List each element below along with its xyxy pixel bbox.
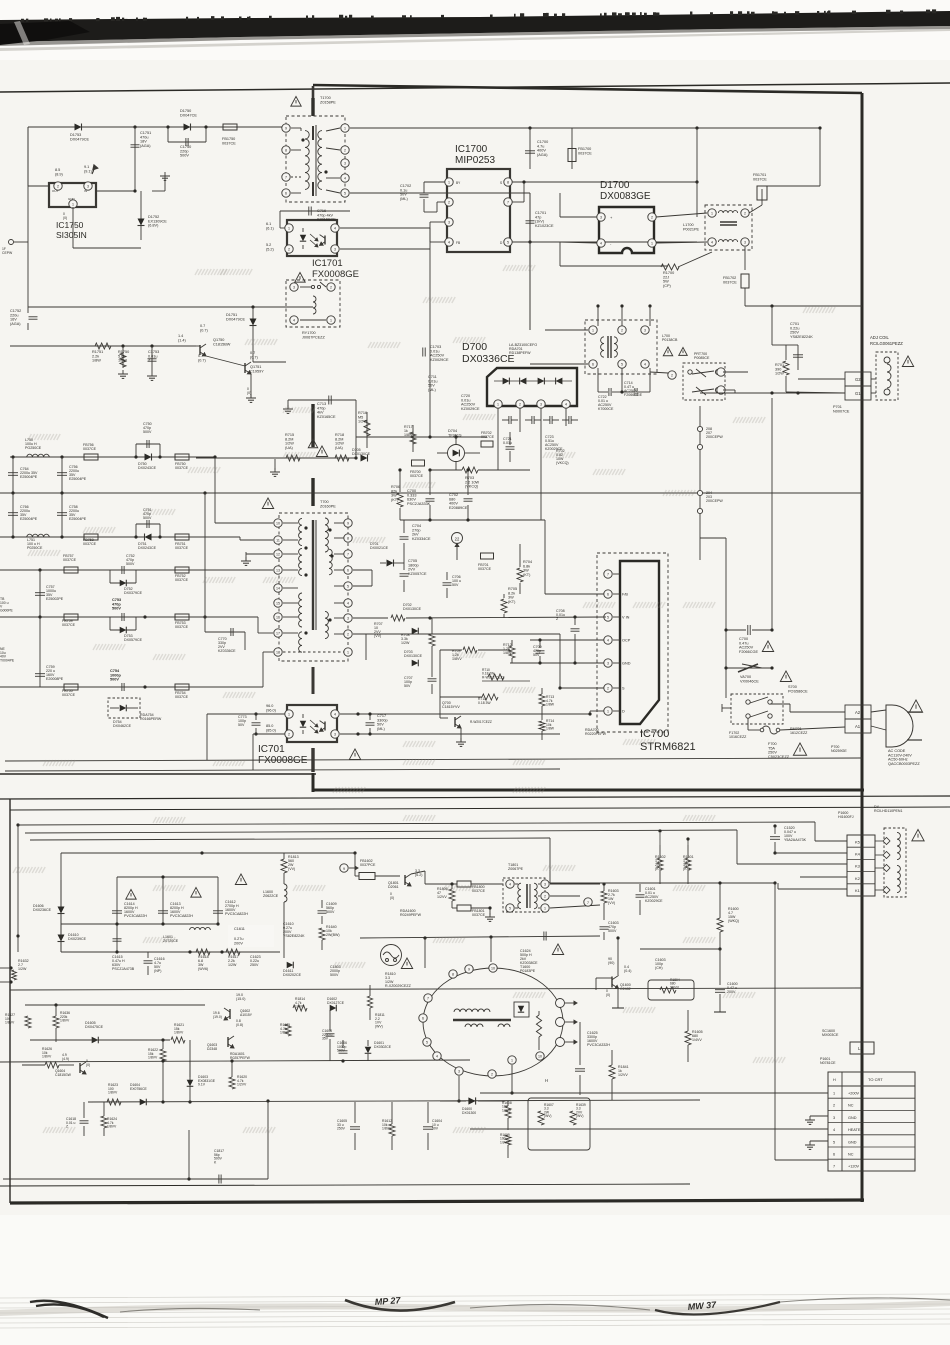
svg-text:6: 6 [833, 1153, 835, 1157]
wire y1062 long [0, 1060, 470, 1062]
R1810 and spark gap [381, 945, 402, 966]
wire AC input row y127 [28, 126, 286, 128]
svg-text:13: 13 [276, 568, 280, 572]
wire pin2 left [28, 185, 49, 187]
diode block D700 [487, 368, 577, 406]
C1605 R1612 C1604 [350, 1126, 360, 1128]
svg-text:7: 7 [607, 572, 609, 576]
Q1751 emitter ground [250, 374, 252, 398]
L750 coil [27, 454, 49, 457]
caps under D700 [508, 416, 510, 424]
FB756 [84, 454, 98, 460]
svg-text:12: 12 [276, 552, 280, 556]
capacitor C1750 [167, 127, 169, 142]
R709 [463, 647, 477, 653]
cap C1616b [113, 938, 122, 940]
svg-text:9: 9 [468, 967, 470, 971]
svg-text:1: 1 [448, 180, 450, 184]
wire y877 cap bank top [117, 876, 218, 878]
K3 feed wire [25, 830, 737, 833]
RY1700 relay [286, 280, 340, 327]
K5 feed wire [18, 822, 815, 825]
wire from pin3 to C1751 [96, 190, 135, 192]
PRT700 posistor [683, 363, 725, 400]
svg-text:3: 3 [540, 402, 542, 406]
C1618 R1624 [80, 1120, 89, 1122]
svg-text:C1611: C1611 [234, 927, 245, 931]
V IN rail [604, 616, 606, 618]
svg-text:D: D [622, 710, 625, 714]
svg-text:V IN: V IN [622, 616, 630, 620]
wire top border to T1700 [312, 86, 315, 98]
svg-text:NC: NC [848, 1153, 854, 1157]
svg-text:17: 17 [276, 631, 280, 635]
svg-text:10: 10 [491, 966, 495, 970]
capacitor C1701 [529, 202, 531, 242]
FB1800 [457, 881, 471, 887]
svg-text:2: 2 [347, 632, 349, 636]
svg-text:3: 3 [334, 732, 336, 736]
GND wire [510, 662, 604, 664]
C1606 D1601 [339, 1050, 348, 1052]
wire T1700 pin5 to right rail [350, 192, 530, 194]
svg-text:2: 2 [288, 732, 290, 736]
R1636 [53, 1016, 59, 1028]
svg-text:4: 4 [347, 601, 349, 605]
svg-text:6: 6 [422, 1016, 424, 1020]
vertical rails x726 x772 [725, 538, 727, 698]
R1608 R1607 R1639 cluster [505, 1106, 511, 1118]
svg-text:5: 5 [509, 906, 511, 910]
svg-text:3: 3 [458, 1069, 460, 1073]
flyback pin drops [458, 1076, 460, 1101]
R707 and net to IC700 [353, 617, 388, 619]
svg-text:K2: K2 [855, 876, 861, 881]
bead FB702 [481, 441, 493, 447]
R1609 [505, 1135, 511, 1145]
R1640 [319, 928, 325, 940]
R1602 R1601 tops to rails [659, 833, 661, 845]
svg-text:H: H [545, 1078, 548, 1083]
svg-text:8: 8 [452, 972, 454, 976]
svg-text:OUT: OUT [52, 189, 59, 193]
wire y520 [400, 519, 545, 521]
nodes 208 207 [699, 406, 701, 560]
svg-text:3: 3 [87, 184, 89, 188]
FB1602 [359, 873, 375, 880]
svg-text:C753470p500V: C753470p500V [112, 598, 121, 611]
K1 feed wire [30, 838, 550, 840]
svg-text:4: 4 [607, 638, 609, 642]
row y570 [0, 569, 193, 571]
R1605 [685, 1031, 691, 1045]
svg-text:IC1701: IC1701 [312, 258, 343, 269]
svg-text:3: 3 [334, 247, 336, 251]
svg-text:2: 2 [519, 402, 521, 406]
R1604 box [648, 980, 694, 1000]
svg-text:2: 2 [621, 328, 623, 332]
svg-text:IC700: IC700 [640, 728, 669, 740]
wire IC1750 gnd down [72, 207, 74, 248]
C709 [536, 650, 545, 652]
wires into connector [480, 1092, 828, 1094]
svg-text:2: 2 [448, 200, 450, 204]
ferrite bead FB1702 [744, 247, 746, 270]
diode D701 [387, 560, 394, 567]
svg-text:H: H [833, 1078, 836, 1082]
bottom thin rule [0, 1184, 690, 1186]
wire y1040 [30, 1039, 170, 1041]
node 7 circle [584, 898, 592, 906]
D1605 [92, 1037, 99, 1044]
R1623 D1604 [107, 1099, 121, 1105]
OCP wire [530, 639, 604, 641]
R1806 [449, 889, 455, 901]
svg-text:C7210.01u: C7210.01u [503, 437, 512, 445]
svg-text:GND: GND [848, 1140, 857, 1144]
svg-text:FB17010037CE: FB17010037CE [753, 173, 767, 181]
svg-text:4: 4 [600, 241, 602, 245]
svg-text:3: 3 [644, 328, 646, 332]
R1614 D1602 R1615 C1608 R1811 [293, 1005, 307, 1011]
diode D703 [412, 660, 419, 667]
top page rule [0, 83, 950, 92]
svg-text:6: 6 [592, 362, 594, 366]
long vertical wire x430 [429, 228, 431, 437]
svg-text:7: 7 [285, 175, 287, 179]
svg-text:2: 2 [671, 373, 673, 377]
capacitor C1703 [422, 348, 424, 357]
wire pin4 FB left [430, 241, 445, 243]
svg-text:FB18010037CE: FB18010037CE [472, 909, 486, 917]
svg-text:6: 6 [285, 191, 287, 195]
wires L700 [560, 329, 588, 331]
svg-text:3: 3 [744, 240, 746, 244]
optocoupler IC701 [287, 705, 337, 742]
rail links to IC701 wires [206, 714, 208, 760]
svg-text:7: 7 [347, 552, 349, 556]
feed wires from FB1702 rail into L700 [597, 306, 599, 326]
svg-text:+120V: +120V [848, 1165, 860, 1169]
wires from IC701 [207, 713, 285, 715]
flyback T1600 ring [423, 968, 563, 1076]
HV out circles [556, 999, 565, 1008]
wire x355 junction [310, 852, 355, 854]
svg-text:ADJ COIL: ADJ COIL [870, 335, 890, 340]
T700 core [312, 520, 314, 630]
svg-text:Q1603D2348: Q1603D2348 [207, 1043, 217, 1051]
IC1700 main box [447, 169, 510, 252]
svg-text:8: 8 [347, 536, 349, 540]
D1611 [287, 962, 294, 969]
svg-text:10: 10 [538, 1054, 542, 1058]
svg-text:C752470p500V: C752470p500V [126, 554, 135, 566]
R708 [429, 634, 435, 646]
capacitor C721 [506, 446, 515, 448]
svg-text:FB17500037CE: FB17500037CE [222, 137, 236, 145]
bottom rails [5, 758, 862, 761]
svg-text:1: 1 [511, 1058, 513, 1062]
svg-text:G2: G2 [855, 377, 861, 382]
IC700 dashed outline [597, 553, 668, 732]
R1841 [609, 1065, 615, 1079]
capacitor C1751 [133, 125, 136, 128]
wire y1102 [88, 1100, 700, 1102]
hatch lower [153, 817, 185, 823]
varistor VA700 [726, 667, 772, 669]
line filter L1700 [705, 205, 752, 250]
upper schematic box bottom border [313, 789, 864, 792]
wire S700 to fuse [747, 718, 749, 730]
svg-text:1: 1 [711, 211, 713, 215]
svg-text:7: 7 [587, 901, 589, 905]
wire y437 [356, 436, 487, 438]
L700 filter [585, 320, 657, 374]
svg-text:3: 3 [347, 616, 349, 620]
scan scribble right with writing [655, 1302, 780, 1315]
svg-text:MP 27: MP 27 [374, 1295, 401, 1307]
C1603 470p [600, 926, 609, 928]
Q1600 [611, 977, 613, 988]
svg-text:3: 3 [293, 285, 295, 289]
diode D705 [361, 455, 368, 462]
svg-text:2: 2 [744, 211, 746, 215]
lower rails entering left [16, 823, 19, 826]
svg-text:2: 2 [651, 215, 653, 219]
D1600 diode [468, 1097, 475, 1104]
svg-text:4: 4 [334, 712, 336, 716]
ground left of R715 [274, 459, 276, 470]
svg-text:1: 1 [347, 650, 349, 654]
svg-text:STRM6821: STRM6821 [640, 741, 696, 753]
svg-text:3: 3 [600, 215, 602, 219]
R714 [539, 721, 545, 731]
Q1603 [227, 1037, 229, 1047]
C1601 [636, 894, 645, 896]
thyristor D704 [448, 445, 465, 462]
wire y1005 [25, 1004, 205, 1006]
upper box top edge [313, 85, 862, 93]
C764 C756 electrolytics [12, 457, 14, 493]
R1627 [25, 1016, 31, 1028]
R1620 [229, 1077, 235, 1089]
capacitor C706 [443, 582, 452, 584]
R1617 [226, 949, 240, 955]
links to T700 left pins [193, 456, 215, 458]
fuse F700 [762, 726, 778, 734]
svg-text:2: 2 [57, 184, 59, 188]
svg-text:4: 4 [344, 176, 346, 180]
svg-text:4: 4 [509, 882, 511, 886]
svg-text:R-W2017CEZZ: R-W2017CEZZ [470, 720, 492, 724]
svg-text:18: 18 [276, 650, 280, 654]
capacitor C716 [280, 210, 350, 212]
svg-text:2: 2 [833, 1104, 835, 1108]
node 22 [452, 533, 463, 544]
svg-text:FX0008GE: FX0008GE [312, 269, 359, 280]
svg-text:D1700: D1700 [600, 180, 630, 191]
svg-text:FB17000037CE: FB17000037CE [578, 147, 592, 155]
svg-text:9: 9 [343, 867, 345, 871]
cap C1614 [116, 877, 118, 952]
Q1801 [404, 875, 406, 885]
wire to D1700 [696, 182, 698, 217]
svg-text:HEATER: HEATER [848, 1128, 863, 1132]
wire y952 [61, 951, 280, 953]
svg-text:SI305IN: SI305IN [56, 230, 87, 240]
svg-text:5: 5 [507, 240, 509, 244]
R1600 [717, 918, 723, 932]
ground near C1751 [152, 190, 165, 192]
wire D1700 to L1700 [656, 213, 707, 217]
wire y924 [61, 923, 218, 925]
wire L700 top to rail [621, 306, 623, 316]
row y617 [0, 616, 193, 618]
wire D700 pin outputs down [497, 432, 499, 470]
svg-text:1: 1 [344, 126, 346, 130]
upper schematic box right border [861, 93, 864, 1202]
R711 [482, 694, 498, 700]
C770 branch [204, 617, 206, 632]
C757 electrolytic [39, 570, 41, 617]
T700 windings [299, 518, 302, 545]
flyback resistor [536, 1015, 541, 1037]
svg-text:2: 2 [344, 148, 346, 152]
core crease below T700 [312, 667, 315, 694]
svg-text:22: 22 [455, 537, 460, 542]
svg-text:1: 1 [497, 402, 499, 406]
ferrite bead FB1701 [749, 205, 762, 213]
bead FB701 lower [481, 553, 494, 559]
svg-text:2: 2 [491, 1072, 493, 1076]
svg-text:1: 1 [544, 906, 546, 910]
resistor R1750 [121, 344, 124, 347]
diode D1606 [60, 880, 62, 924]
left sub-section bottom rule [0, 773, 316, 775]
transistor Q1750 [199, 345, 201, 355]
svg-text:IC701: IC701 [258, 744, 285, 755]
svg-text:1: 1 [607, 709, 609, 713]
R1626 Q1604 [45, 1062, 59, 1068]
svg-text:16: 16 [276, 615, 280, 619]
svg-text:6: 6 [347, 568, 349, 572]
svg-text:4: 4 [293, 318, 295, 322]
svg-text:15: 15 [276, 601, 280, 605]
node 9 arrow [340, 864, 348, 872]
svg-text:L3: L3 [858, 1046, 863, 1051]
R1603 [601, 891, 607, 903]
resistor R701 [785, 345, 787, 360]
pin18 dashes [283, 651, 344, 653]
rail y493 [0, 492, 862, 494]
wire from G1 row down [771, 398, 773, 630]
diode D1610 [58, 935, 65, 942]
flyback diode box [514, 1002, 529, 1017]
wire pin2 down [353, 633, 560, 635]
D750 [145, 454, 152, 461]
svg-text:FB17020037CE: FB17020037CE [723, 276, 737, 284]
R717 resistor [412, 425, 414, 452]
svg-text:C750470p500V: C750470p500V [143, 422, 152, 434]
svg-text:MIP0253: MIP0253 [455, 155, 495, 166]
wire upper AC to connector [770, 703, 790, 705]
svg-text:5: 5 [607, 615, 609, 619]
diode D1753 [75, 124, 82, 131]
lower box top rules [0, 796, 950, 799]
capacitor C1600b right [718, 947, 721, 950]
grounds at connector [810, 1115, 828, 1117]
svg-text:F/B: F/B [622, 593, 628, 597]
svg-text:3: 3 [607, 661, 609, 665]
pins 6-5 link [353, 569, 372, 571]
svg-text:1: 1 [651, 241, 653, 245]
verticals for cap bank [60, 900, 62, 952]
wire y560 to IC700 area [668, 559, 700, 561]
ferrite bead FB1750 [223, 124, 237, 130]
ferrite bead FB1700 [571, 128, 573, 169]
svg-text:5: 5 [426, 1040, 428, 1044]
R1621 [171, 1037, 185, 1043]
svg-text:2: 2 [288, 247, 290, 251]
svg-text:G1: G1 [855, 391, 861, 396]
capacitor C1700 [529, 128, 531, 169]
svg-text:GND: GND [848, 1116, 857, 1120]
svg-text:1: 1 [288, 712, 290, 716]
svg-text:2: 2 [607, 686, 609, 690]
wire y949 to R1600 [640, 948, 720, 950]
C722 C714 caps [597, 368, 599, 392]
Q1602 [229, 1009, 231, 1019]
svg-text:1: 1 [72, 202, 74, 206]
capacitor C700b [726, 629, 772, 631]
svg-text:1: 1 [833, 1092, 835, 1096]
svg-text:OCP: OCP [622, 639, 631, 643]
C1611 white box [228, 925, 274, 947]
svg-text:TO CRT: TO CRT [868, 1077, 883, 1082]
FB750 [175, 454, 189, 460]
transistor Q1751 [244, 363, 246, 373]
svg-text:K4: K4 [855, 852, 861, 857]
svg-text:7: 7 [833, 1165, 835, 1169]
wires into IC700 [545, 593, 604, 595]
R713 [539, 694, 545, 706]
capacitor C1753 [150, 344, 153, 347]
left terminal [9, 240, 14, 245]
R1602 R1601 [657, 858, 663, 870]
C773 cap left [252, 722, 261, 724]
C707 [428, 678, 437, 680]
nodes 204 203 [697, 490, 702, 495]
wire row y346 bias network [10, 345, 196, 347]
svg-text:IC1750: IC1750 [56, 220, 84, 230]
wires PRT700 [650, 372, 668, 373]
rail y990 [10, 988, 862, 990]
long vertical from K1 wire down [774, 883, 776, 1160]
svg-text:4: 4 [644, 362, 646, 366]
ground at pin11 [245, 552, 247, 561]
left bottom components [0, 967, 11, 969]
C750 cap [135, 444, 137, 457]
svg-text:K1: K1 [855, 888, 861, 893]
R710 [488, 674, 504, 680]
inner wire from left [61, 852, 310, 854]
connector P700 A2 A1 [845, 705, 871, 719]
svg-text:0.27u200V: 0.27u200V [234, 937, 244, 945]
svg-text:9: 9 [285, 126, 287, 130]
S wire [560, 687, 604, 689]
wires T1801 right [550, 883, 600, 885]
cap C1613 [162, 877, 164, 924]
